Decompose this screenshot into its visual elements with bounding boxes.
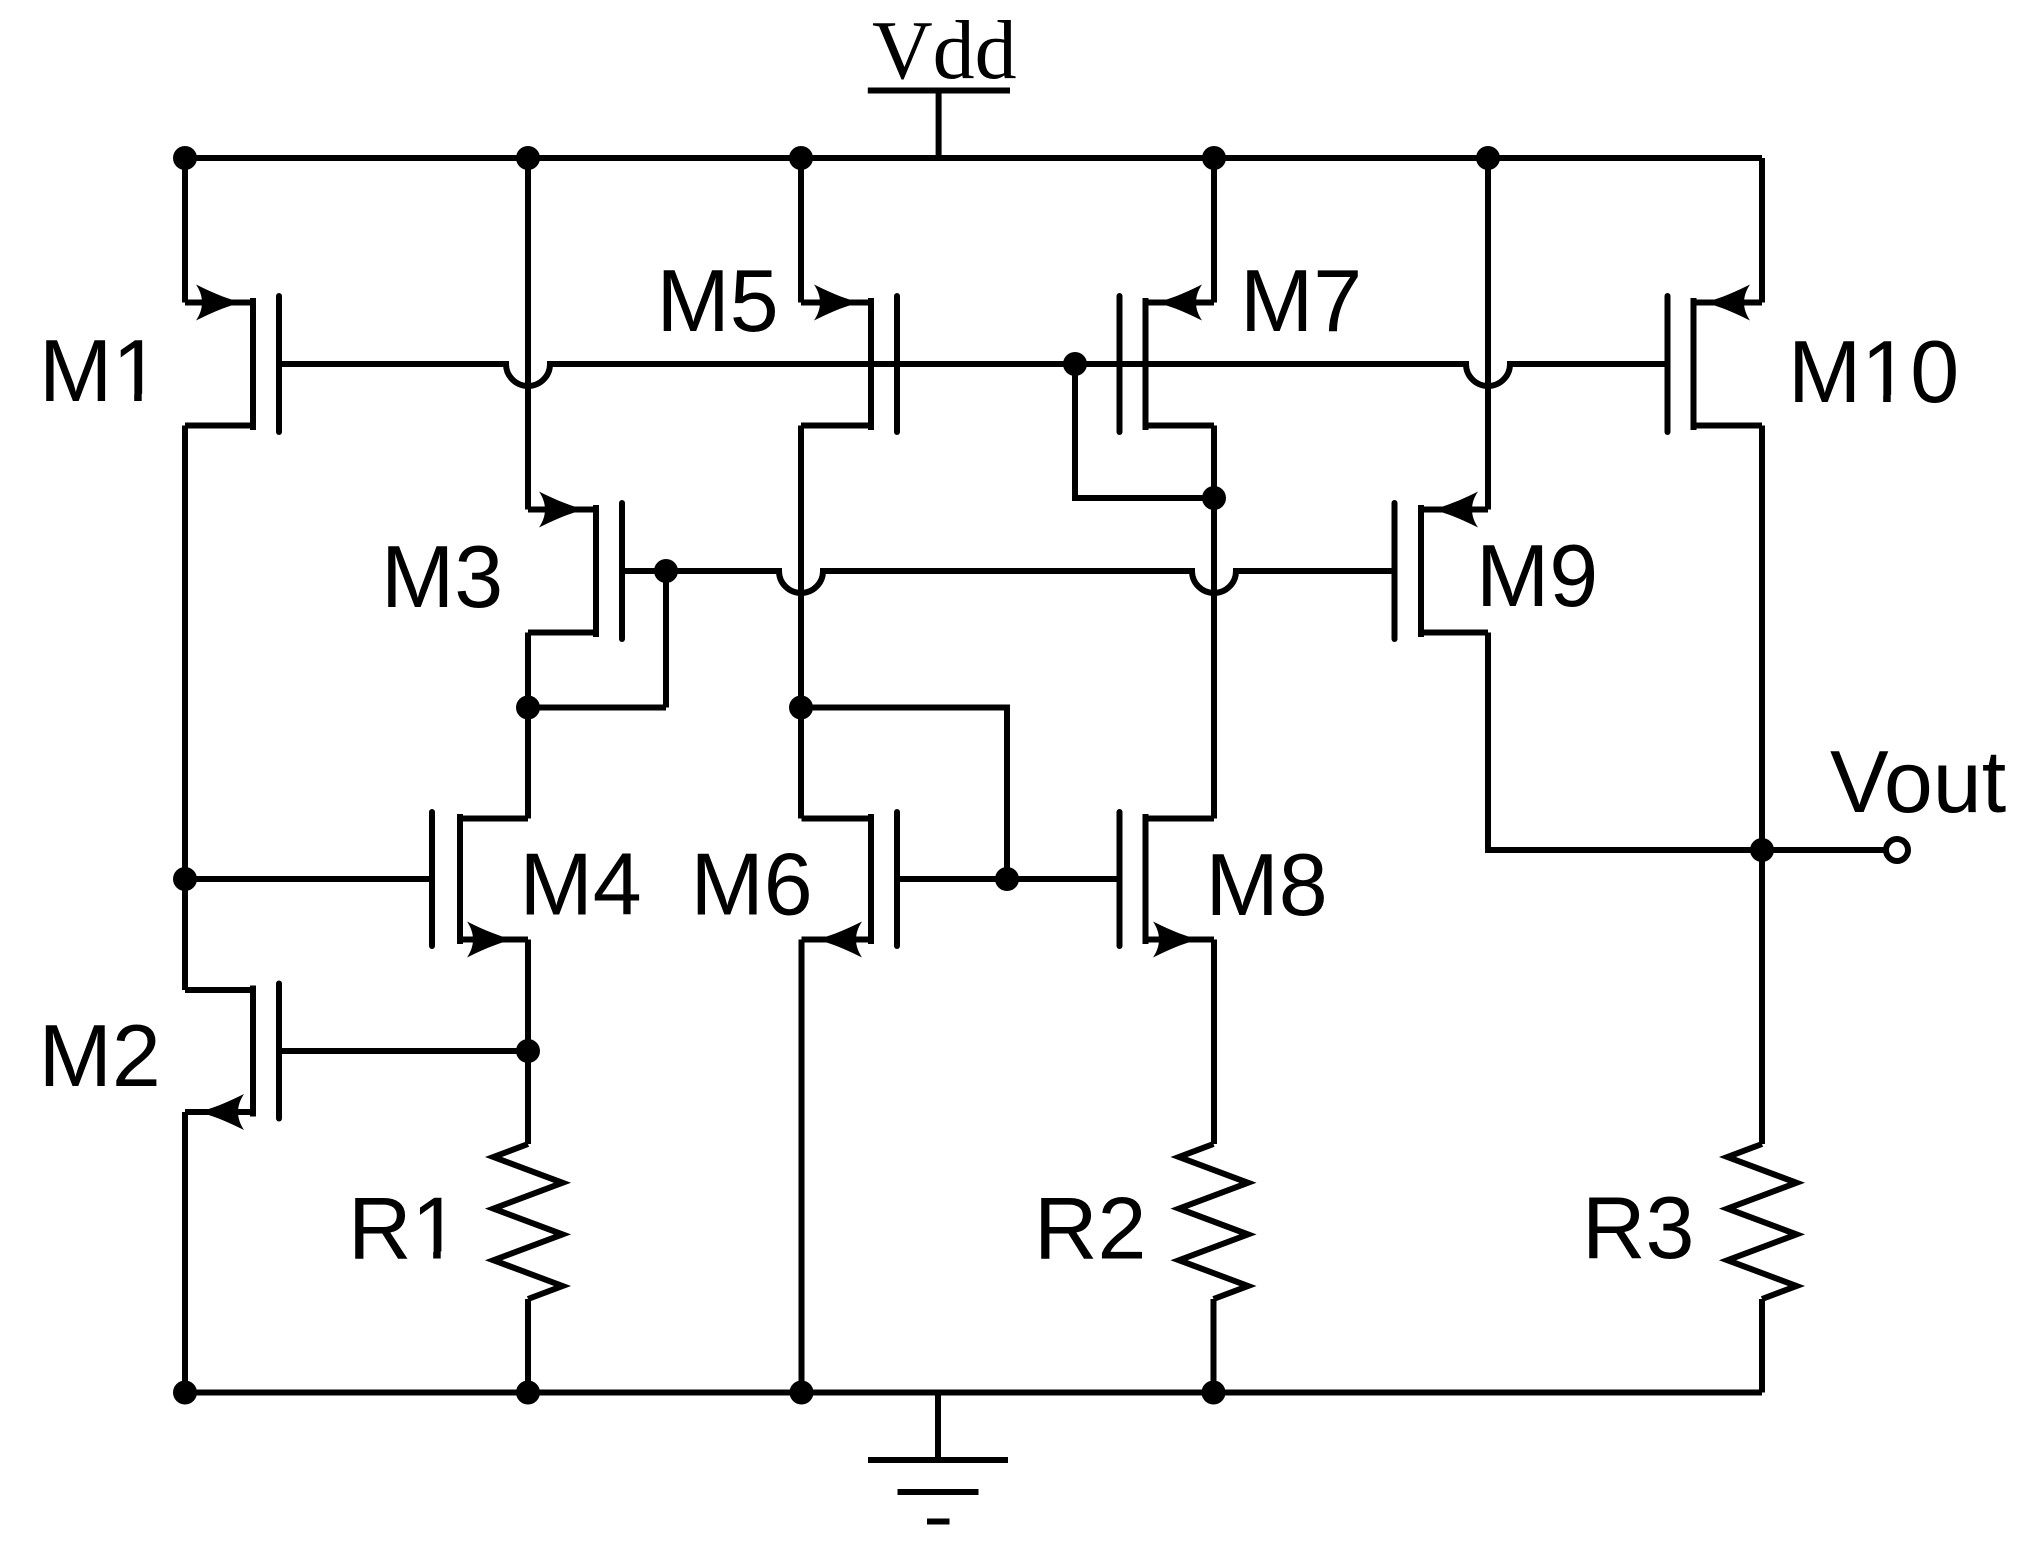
svg-text:M4: M4 <box>520 835 642 934</box>
wire M5 drain down to M6 drain <box>798 426 804 819</box>
junction M7 drain node <box>1202 486 1226 510</box>
wire M7 drain down to M8 drain <box>1211 426 1217 819</box>
transistor M3 <box>528 492 622 640</box>
junction M5-M6 drain node <box>789 696 813 720</box>
svg-text:M2: M2 <box>39 1006 161 1105</box>
digit-1 foot patches (style correction) <box>119 394 1907 1262</box>
transistor M7 <box>1120 285 1215 433</box>
transistor M6 <box>802 812 898 958</box>
wire M9 drain to Vout node <box>1488 633 1762 851</box>
node Vout open terminal <box>1886 839 1908 861</box>
junction ground rail / R1 <box>516 1381 540 1405</box>
wire M8 source down to R2 <box>1211 940 1217 1145</box>
wire M3 drain to gate link horizontal <box>528 705 666 711</box>
junction M3 drain node <box>516 696 540 720</box>
transistor M4 <box>432 812 528 958</box>
wire M10 source column <box>1759 158 1765 303</box>
wire gate rail M3-M9 with hops <box>625 571 1392 593</box>
svg-text:M5: M5 <box>657 251 779 350</box>
wire M3 gate-drain diode connection <box>663 571 669 708</box>
transistor M2 <box>185 984 279 1131</box>
svg-text:M9: M9 <box>1476 526 1598 625</box>
junction M4 gate tap <box>173 867 197 891</box>
wire M2 gate lead <box>282 1048 528 1054</box>
wire M7 gate-drain diode connection <box>1075 364 1214 498</box>
wire M10 drain down through Vout node to R3 <box>1759 426 1765 1145</box>
wire M1 drain down to M2 <box>182 426 188 991</box>
Vdd supply symbol <box>868 91 1010 159</box>
transistor M9 <box>1395 492 1489 640</box>
svg-text:Vout: Vout <box>1830 732 2006 831</box>
wire Vdd rail down to M7 source <box>1211 158 1217 303</box>
svg-text:M6: M6 <box>691 835 813 934</box>
junction M2 gate / R1 node <box>516 1039 540 1063</box>
wire R3 bottom lead <box>1759 1299 1765 1393</box>
junction ground rail left <box>173 1381 197 1405</box>
wire R2 bottom lead <box>1211 1299 1217 1393</box>
junction Vout node <box>1750 838 1774 862</box>
svg-text:Vdd: Vdd <box>872 4 1017 97</box>
transistor M5 <box>801 285 897 433</box>
wire M6 source to ground rail <box>799 940 805 1393</box>
wire M6-M8 gate rail <box>900 876 1117 882</box>
wire PMOS gate rail M1-M5-M7-M10 with hops <box>282 364 1665 386</box>
svg-text:R3: R3 <box>1582 1178 1695 1277</box>
wire Vout stub <box>1762 847 1886 853</box>
wire M4 source down to R1 <box>525 940 531 1145</box>
junction Vdd rail / M9 source <box>1476 146 1500 170</box>
wire bottom ground rail <box>185 1390 1762 1396</box>
junction Vdd rail / M1 source <box>173 146 197 170</box>
resistor R2 <box>1179 1144 1248 1299</box>
wire M4 gate lead from left column <box>185 876 429 882</box>
wire M3 drain node column <box>525 633 531 819</box>
wire Vdd rail down to M3 source <box>525 158 531 510</box>
resistor R1 <box>494 1144 563 1299</box>
ground <box>868 1393 1008 1522</box>
junction Vdd rail / M3 source <box>516 146 540 170</box>
wire M6 drain to gate diode link <box>801 708 1007 880</box>
wire Vdd rail down to M5 source <box>798 158 804 303</box>
junction Vdd rail / M5 source <box>789 146 813 170</box>
junction ground rail / R2 <box>1202 1381 1226 1405</box>
svg-text:M7: M7 <box>1240 251 1362 350</box>
resistor R3 <box>1728 1144 1797 1299</box>
transistor M8 <box>1120 812 1215 958</box>
wire left column upper (Vdd to M1 source) <box>182 158 188 303</box>
transistor M10 <box>1668 285 1763 433</box>
junction M7 gate / gate rail <box>1063 352 1087 376</box>
svg-text:M8: M8 <box>1206 835 1328 934</box>
junction M3 gate / diode link <box>654 559 678 583</box>
wire R1 bottom lead <box>525 1299 531 1393</box>
svg-text:M10: M10 <box>1788 322 1959 421</box>
svg-text:M1: M1 <box>39 321 161 420</box>
svg-text:M3: M3 <box>381 527 503 626</box>
transistor M1 <box>185 285 279 433</box>
junction Vdd rail / M7 source <box>1202 146 1226 170</box>
junction ground rail / M6 source <box>790 1381 814 1405</box>
wire M2 source to ground rail <box>182 1112 188 1393</box>
wire top Vdd rail <box>185 155 1762 161</box>
svg-text:R2: R2 <box>1034 1179 1147 1278</box>
junction M6 gate / M8 gate rail <box>995 867 1019 891</box>
wire Vdd rail down to M9 source <box>1485 158 1491 510</box>
svg-text:R1: R1 <box>348 1179 461 1278</box>
